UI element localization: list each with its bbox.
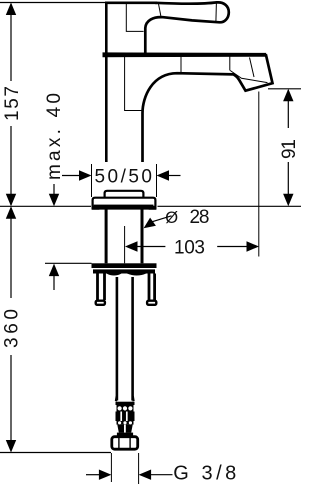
spout tick (229, 57, 231, 71)
handle base block (106, 3, 157, 53)
arrow 103 left (125, 241, 138, 251)
connector bead row (117, 405, 134, 412)
arrow 157 bottom (6, 194, 16, 207)
escutcheon foot left (92, 206, 99, 210)
dimension max40 lower line (53, 275, 55, 290)
bracket bar (92, 263, 157, 268)
pipe end flare right (132, 396, 135, 401)
dimension 360 line (10, 208, 12, 298)
arrow G38 left (86, 474, 101, 476)
nut facet left (118, 437, 120, 450)
arrow dia28 (144, 218, 156, 229)
centerline (124, 226, 126, 263)
spout crease (230, 71, 267, 83)
leader dia28 (152, 216, 172, 222)
dimension 50/50 (62, 175, 81, 177)
supply pipe left (116, 277, 119, 401)
bracket foot left (96, 301, 105, 305)
dimension 157 line (10, 4, 12, 81)
pipe end flare left (115, 396, 118, 401)
bracket foot right (147, 301, 156, 305)
handle lever tip face (215, 3, 218, 22)
arrow 103 right (247, 241, 260, 251)
bracket scallop right (126, 273, 147, 275)
dimension max40 upper line (53, 184, 55, 202)
shank pipe left (105, 209, 108, 264)
connector bead row 2 (117, 421, 134, 425)
bracket leg left (98, 274, 105, 301)
connector collar above nut (117, 433, 133, 436)
svg-text:91: 91 (279, 139, 300, 159)
escutcheon collar (105, 191, 144, 199)
spout tip extension line (268, 88, 301, 90)
escutcheon foot right (149, 206, 156, 210)
bracket leg right (149, 274, 155, 301)
arrow max40 up (49, 264, 59, 277)
dimension 91 line (287, 90, 289, 128)
arrow 157 top (6, 3, 16, 16)
bottom extension line (0, 452, 111, 454)
svg-text:103: 103 (174, 237, 205, 258)
extension line bracket top (45, 262, 92, 264)
connector top collar (116, 402, 135, 405)
mounting extension line right (158, 205, 302, 207)
arrow 91 bottom (283, 194, 293, 207)
extension line 50/50 right (156, 164, 158, 197)
arrow 50/50 left (79, 170, 92, 180)
handle transition line (159, 4, 162, 17)
arrow 91 top (283, 89, 293, 102)
svg-text:360: 360 (2, 309, 23, 348)
handle detail thin L (126, 3, 143, 32)
spout aerator inner line (247, 85, 267, 90)
top extension line (0, 2, 105, 4)
connector ribbed section (116, 412, 135, 422)
cap band (103, 53, 266, 57)
arrow 360 bottom (6, 440, 16, 453)
extension line 50/50 left (91, 164, 93, 197)
G3/8 extension lines (110, 453, 112, 482)
svg-text:Ø: Ø (165, 209, 178, 227)
escutcheon bottom band (94, 205, 154, 209)
svg-text:50/50: 50/50 (95, 166, 153, 187)
svg-text:G 3/8: G 3/8 (173, 462, 236, 484)
spout crease 2 (250, 58, 255, 78)
body right edge + spout outline (143, 54, 273, 162)
body left edge (105, 56, 108, 162)
arrow 50/50 right (157, 170, 170, 180)
arrow max40 down (49, 194, 59, 207)
svg-text:28: 28 (190, 207, 210, 228)
nut facet right (129, 437, 131, 450)
arrow 360 top (6, 206, 16, 219)
escutcheon flange (93, 198, 156, 209)
extension line spout outlet vertical (258, 92, 260, 257)
bracket scallop left (106, 273, 122, 275)
spout top detail vertical (180, 57, 182, 73)
arrow G38 right (139, 470, 152, 480)
supply pipe right (131, 277, 134, 401)
svg-text:157: 157 (2, 86, 23, 121)
nut (112, 437, 138, 450)
mounting extension line left (0, 205, 91, 207)
connector lower taper (117, 425, 132, 433)
handle lever (145, 2, 229, 53)
body inner detail line (125, 57, 142, 111)
shank pipe right (141, 209, 144, 264)
